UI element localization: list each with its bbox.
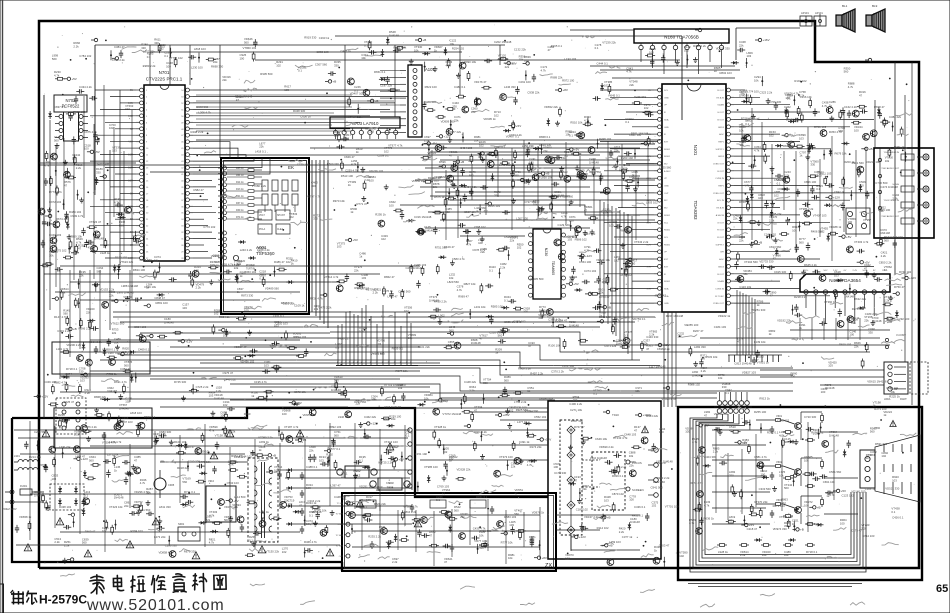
component cluster <box>798 207 814 231</box>
component cluster <box>792 295 808 317</box>
wire <box>193 238 216 240</box>
svg-text:R278 560: R278 560 <box>852 307 865 311</box>
wire <box>537 146 539 218</box>
wire <box>113 316 655 318</box>
wire <box>712 429 770 431</box>
svg-text:10k: 10k <box>804 458 809 462</box>
svg-text:VD153 2.2k: VD153 2.2k <box>100 287 115 291</box>
svg-text:N101: N101 <box>693 145 698 156</box>
svg-text:0.1: 0.1 <box>84 493 88 497</box>
component cluster <box>530 143 555 171</box>
wire <box>611 206 613 330</box>
svg-text:5V: 5V <box>130 89 133 92</box>
svg-text:VT331 560: VT331 560 <box>371 352 385 356</box>
wire <box>379 504 381 552</box>
svg-text:VT623 22k: VT623 22k <box>120 260 134 264</box>
svg-text:+12V: +12V <box>371 422 378 426</box>
wire <box>200 154 600 156</box>
svg-text:1N4148: 1N4148 <box>34 493 44 497</box>
component cluster <box>74 85 97 104</box>
wire <box>330 332 890 345</box>
svg-text:C656 1k: C656 1k <box>300 115 311 119</box>
component cluster <box>384 445 403 469</box>
svg-text:560: 560 <box>182 480 187 484</box>
svg-text:R901 2.2k: R901 2.2k <box>474 430 487 434</box>
svg-text:4.7k: 4.7k <box>584 118 590 122</box>
svg-text:VT785 102: VT785 102 <box>169 56 183 60</box>
svg-text:C213 330: C213 330 <box>188 460 201 464</box>
component cluster <box>119 220 141 243</box>
wire <box>600 295 654 297</box>
wire <box>79 270 81 349</box>
svg-text:VT464 2.2k: VT464 2.2k <box>348 115 363 119</box>
component cluster <box>726 515 754 527</box>
svg-text:47: 47 <box>439 317 443 321</box>
main filter cap C905 <box>154 470 175 498</box>
wire <box>855 150 857 237</box>
svg-text:C848 47: C848 47 <box>154 296 165 300</box>
wire <box>742 293 744 355</box>
component cluster <box>114 197 131 219</box>
svg-text:C921 330: C921 330 <box>479 529 492 533</box>
svg-text:L427 560: L427 560 <box>474 206 486 210</box>
wire <box>734 170 760 172</box>
CRT board outline <box>678 407 922 580</box>
svg-text:9V: 9V <box>873 270 876 272</box>
wire <box>734 221 830 223</box>
svg-text:22k: 22k <box>614 148 619 152</box>
component cluster <box>763 270 793 294</box>
component cluster <box>320 275 347 296</box>
component cluster <box>106 465 133 485</box>
svg-text:C176 330: C176 330 <box>554 471 567 475</box>
wire <box>756 355 758 362</box>
component cluster <box>379 525 397 549</box>
svg-text:3.2V: 3.2V <box>128 154 133 157</box>
wire <box>430 151 620 153</box>
svg-text:R513 100: R513 100 <box>341 174 354 178</box>
wire <box>450 199 655 201</box>
svg-text:22k: 22k <box>79 273 84 277</box>
wire <box>189 45 191 85</box>
component cluster <box>474 80 491 107</box>
wire <box>230 399 555 401</box>
wire <box>778 355 780 362</box>
component cluster <box>589 157 603 185</box>
component cluster <box>386 30 405 53</box>
wire <box>712 459 770 461</box>
svg-text:C187 22k: C187 22k <box>380 84 393 88</box>
wire <box>698 55 700 74</box>
wire <box>627 214 629 354</box>
svg-text:22k: 22k <box>109 293 114 297</box>
svg-text:C426 0.1: C426 0.1 <box>892 516 904 520</box>
svg-text:C333 560: C333 560 <box>759 487 772 491</box>
CRT driver V604 <box>692 437 705 453</box>
wire <box>382 305 384 365</box>
wire <box>193 102 395 104</box>
power outputs <box>330 428 412 524</box>
wire <box>626 163 654 165</box>
svg-text:R679 10k: R679 10k <box>835 152 848 156</box>
svg-text:102: 102 <box>471 110 476 114</box>
svg-text:15: 15 <box>146 180 149 182</box>
component cluster <box>48 105 76 121</box>
component cluster <box>609 145 632 169</box>
wire <box>100 108 136 110</box>
svg-text:103: 103 <box>604 83 609 87</box>
svg-text:R439 2.2k: R439 2.2k <box>434 299 447 303</box>
svg-text:+12V: +12V <box>909 276 916 280</box>
svg-text:49: 49 <box>181 122 184 124</box>
svg-text:36: 36 <box>181 206 184 208</box>
svg-text:560: 560 <box>799 240 804 244</box>
wire <box>196 112 334 114</box>
svg-text:VD658 1k: VD658 1k <box>19 515 32 519</box>
svg-text:C348 560: C348 560 <box>196 105 209 109</box>
svg-text:C617 100: C617 100 <box>786 118 799 122</box>
svg-text:100: 100 <box>166 64 171 68</box>
wire <box>734 133 780 135</box>
wire <box>604 118 654 120</box>
svg-text:VD489 560: VD489 560 <box>265 286 279 290</box>
component cluster <box>544 105 561 126</box>
svg-text:L367 103: L367 103 <box>584 232 596 236</box>
svg-text:C720 330: C720 330 <box>804 415 817 419</box>
svg-text:GND1: GND1 <box>337 524 343 526</box>
wire <box>618 104 654 106</box>
component cluster <box>528 157 550 181</box>
svg-text:R645 2.2k: R645 2.2k <box>804 263 817 267</box>
svg-text:C577 10k: C577 10k <box>97 161 110 165</box>
svg-text:10k: 10k <box>629 454 634 458</box>
wire <box>110 141 136 143</box>
svg-text:VD957 0.1: VD957 0.1 <box>303 413 317 417</box>
svg-text:2.2k: 2.2k <box>713 450 719 454</box>
wire <box>193 212 216 214</box>
component cluster <box>470 140 486 164</box>
wire <box>219 45 221 158</box>
wire <box>60 391 430 393</box>
component cluster <box>803 455 821 481</box>
svg-text:C208 330: C208 330 <box>165 544 178 548</box>
wire <box>193 158 270 174</box>
component cluster <box>34 380 59 406</box>
svg-text:C374 22k: C374 22k <box>554 156 567 160</box>
wire <box>315 160 317 316</box>
svg-text:1N4148: 1N4148 <box>107 389 117 393</box>
svg-text:102: 102 <box>881 454 886 458</box>
svg-text:J: J <box>365 362 366 364</box>
component cluster <box>134 500 154 516</box>
svg-text:L473 22k: L473 22k <box>154 535 166 539</box>
svg-text:C648 103: C648 103 <box>624 432 637 436</box>
wire <box>820 431 858 433</box>
svg-text:4.7k: 4.7k <box>561 214 567 218</box>
component cluster <box>620 330 644 351</box>
svg-text:BPI: BPI <box>720 252 724 254</box>
svg-text:0.1: 0.1 <box>249 538 253 542</box>
svg-text:C489 10k: C489 10k <box>886 386 899 390</box>
svg-text:C139 2.2k: C139 2.2k <box>153 432 166 436</box>
IC N230 TDA4665 <box>529 229 566 299</box>
wire <box>640 55 642 62</box>
wire <box>170 346 420 348</box>
svg-text:46: 46 <box>181 142 184 144</box>
svg-text:102: 102 <box>479 143 484 147</box>
svg-text:R697 560: R697 560 <box>620 229 633 233</box>
svg-text:C706 330: C706 330 <box>769 100 782 104</box>
svg-text:102: 102 <box>887 320 892 324</box>
component cluster <box>56 180 84 203</box>
svg-text:47: 47 <box>474 408 478 412</box>
wire <box>70 281 340 283</box>
svg-text:VD733 330: VD733 330 <box>759 259 773 263</box>
svg-text:C576 2.2k: C576 2.2k <box>84 425 97 429</box>
wire <box>379 429 381 511</box>
bridge rectifier VD901-904 <box>50 484 84 510</box>
component cluster <box>575 205 599 235</box>
svg-text:10k: 10k <box>398 386 403 390</box>
wire <box>614 185 654 187</box>
svg-text:+25V: +25V <box>503 413 510 417</box>
component cluster <box>154 430 173 445</box>
wire <box>470 411 548 413</box>
svg-text:R406 560: R406 560 <box>811 230 824 234</box>
wire <box>771 144 773 237</box>
svg-text:R355 103: R355 103 <box>488 204 501 208</box>
svg-text:VT814 4.7k: VT814 4.7k <box>324 275 339 279</box>
svg-text:C614 103: C614 103 <box>862 534 875 538</box>
svg-text:R114 102: R114 102 <box>597 526 609 530</box>
svg-text:VT894 560: VT894 560 <box>525 409 539 413</box>
svg-text:0.1: 0.1 <box>595 46 599 50</box>
wire <box>69 270 71 357</box>
svg-text:VD827 103: VD827 103 <box>742 370 756 374</box>
svg-text:R147 4.7k: R147 4.7k <box>54 315 67 319</box>
svg-text:VT933 4.7k: VT933 4.7k <box>661 397 676 401</box>
wire <box>30 493 200 495</box>
svg-text:50V: 50V <box>824 270 828 272</box>
component cluster <box>842 160 864 187</box>
svg-text:R235 2.2k: R235 2.2k <box>368 534 381 538</box>
svg-text:R497 2.2k: R497 2.2k <box>530 371 543 375</box>
caption watermark 家电维修资料网 <box>90 572 226 594</box>
svg-text:2.2k: 2.2k <box>598 291 604 295</box>
svg-text:R928 47: R928 47 <box>354 286 365 290</box>
wire <box>626 214 654 216</box>
svg-text:R334 1k: R334 1k <box>219 315 230 319</box>
wire <box>193 218 204 220</box>
svg-text:B OUT: B OUT <box>717 274 724 276</box>
svg-text:R64 1k: R64 1k <box>236 174 244 177</box>
svg-text:0.1: 0.1 <box>335 345 339 349</box>
component cluster <box>847 297 875 325</box>
svg-text:0.1: 0.1 <box>164 54 168 58</box>
wire <box>751 108 753 240</box>
svg-text:0.1: 0.1 <box>745 122 749 126</box>
svg-text:R OUT: R OUT <box>717 237 724 239</box>
svg-text:22k: 22k <box>124 504 129 508</box>
svg-text:47: 47 <box>770 294 774 298</box>
svg-text:4.7k: 4.7k <box>754 148 760 152</box>
wire <box>59 270 61 379</box>
svg-text:2.2k: 2.2k <box>861 526 867 530</box>
svg-text:102: 102 <box>289 215 294 219</box>
wire <box>607 141 609 217</box>
svg-text:C659 4.7k: C659 4.7k <box>220 263 233 267</box>
svg-text:IF: IF <box>664 112 667 114</box>
svg-text:0.1: 0.1 <box>259 277 263 281</box>
svg-text:3.2V: 3.2V <box>128 167 133 170</box>
yoke connector XS601 <box>884 362 928 401</box>
wire <box>323 160 325 324</box>
wire <box>193 134 340 136</box>
wire <box>120 321 635 323</box>
wire <box>365 305 367 365</box>
svg-text:L206 4.7k: L206 4.7k <box>199 110 212 114</box>
svg-text:1N4148: 1N4148 <box>312 510 322 514</box>
svg-text:330: 330 <box>96 170 101 174</box>
svg-text:100: 100 <box>848 220 853 224</box>
svg-text:10k: 10k <box>533 203 538 207</box>
svg-text:R751 560: R751 560 <box>435 246 448 250</box>
svg-text:10k: 10k <box>739 128 744 132</box>
svg-text:L988 1N4148: L988 1N4148 <box>121 284 138 288</box>
svg-text:V910: V910 <box>208 479 215 483</box>
svg-text:4.6V: 4.6V <box>128 141 133 144</box>
svg-text:560: 560 <box>514 512 519 516</box>
svg-text:ZX: ZX <box>545 563 552 569</box>
svg-text:17: 17 <box>146 193 149 195</box>
svg-text:2.2k: 2.2k <box>884 298 890 302</box>
component cluster <box>463 225 486 245</box>
wire <box>825 299 827 324</box>
wire <box>380 90 400 92</box>
wire <box>285 477 410 479</box>
svg-text:22k: 22k <box>505 65 510 69</box>
component cluster <box>592 295 611 310</box>
svg-text:R789 103: R789 103 <box>814 125 827 129</box>
svg-text:22k: 22k <box>460 515 465 519</box>
wire <box>712 491 770 493</box>
wire <box>255 59 680 61</box>
svg-text:560: 560 <box>389 448 394 452</box>
wire <box>911 62 913 405</box>
svg-text:C879 102: C879 102 <box>612 492 625 496</box>
svg-text:RGB1: RGB1 <box>664 281 671 283</box>
svg-text:560: 560 <box>784 440 789 444</box>
svg-text:0.1: 0.1 <box>816 187 820 191</box>
svg-text:10k: 10k <box>479 533 484 537</box>
svg-text:1N4148: 1N4148 <box>539 308 549 312</box>
svg-text:L946 560: L946 560 <box>338 415 350 419</box>
component cluster <box>287 335 309 357</box>
svg-text:+5V: +5V <box>94 150 99 154</box>
svg-text:+B: +B <box>272 453 276 457</box>
wire <box>734 273 850 275</box>
svg-text:RGB1: RGB1 <box>664 156 671 158</box>
wire <box>795 151 797 253</box>
svg-text:103: 103 <box>369 130 374 134</box>
component cluster <box>585 280 618 295</box>
svg-text:2.2k: 2.2k <box>892 196 898 200</box>
wire <box>734 265 874 267</box>
svg-text:R905 560: R905 560 <box>260 72 273 76</box>
svg-text:10k: 10k <box>408 336 413 340</box>
svg-text:103: 103 <box>377 342 382 346</box>
svg-text:560: 560 <box>259 273 264 277</box>
page left edge line <box>2 0 4 613</box>
wire <box>485 155 487 215</box>
svg-text:V602: V602 <box>776 460 783 464</box>
caption model label 海尔H-2579C <box>11 590 88 607</box>
svg-text:L240 2.2k: L240 2.2k <box>240 248 253 252</box>
svg-text:R970 10k: R970 10k <box>333 199 346 203</box>
svg-text:R557 330: R557 330 <box>571 419 584 423</box>
component cluster <box>779 430 799 448</box>
svg-text:2: 2 <box>146 97 148 99</box>
IC N160 TDA7056B <box>634 29 729 55</box>
svg-text:22k: 22k <box>762 553 767 557</box>
svg-text:R882 4.7k: R882 4.7k <box>54 380 67 384</box>
svg-text:C971 22k: C971 22k <box>604 344 617 348</box>
CRT socket and tube neck <box>860 420 920 502</box>
component cluster <box>729 470 743 499</box>
component cluster <box>410 263 427 288</box>
svg-text:102: 102 <box>679 554 684 558</box>
svg-text:L525 47: L525 47 <box>64 400 75 404</box>
svg-text:C104 1k: C104 1k <box>865 487 876 491</box>
wire <box>599 200 601 312</box>
wire <box>663 312 665 407</box>
wire <box>445 170 447 240</box>
regulator N902 7812 <box>337 466 377 478</box>
svg-text:103: 103 <box>288 502 293 506</box>
svg-text:3: 3 <box>146 103 148 105</box>
svg-text:C716 560: C716 560 <box>875 181 888 185</box>
component cluster <box>653 545 665 567</box>
svg-text:1N4148: 1N4148 <box>114 496 124 500</box>
wire <box>451 509 453 557</box>
svg-text:C323 2.2k: C323 2.2k <box>759 91 772 95</box>
svg-text:330: 330 <box>868 330 873 334</box>
svg-text:102: 102 <box>769 133 774 137</box>
wire <box>799 318 801 340</box>
component cluster <box>114 403 129 430</box>
svg-text:R14 1k: R14 1k <box>236 181 244 184</box>
svg-text:IF: IF <box>664 274 667 276</box>
svg-text:R985 22k: R985 22k <box>770 212 783 216</box>
wire <box>380 132 400 134</box>
wire <box>590 65 735 67</box>
svg-text:EXT: EXT <box>664 266 669 268</box>
component cluster <box>480 265 501 293</box>
svg-text:330: 330 <box>569 278 574 282</box>
wire <box>614 133 654 135</box>
wire <box>500 419 548 421</box>
svg-text:VD725 2.2k: VD725 2.2k <box>378 460 393 464</box>
component cluster <box>574 115 592 136</box>
svg-text:10k: 10k <box>743 272 748 276</box>
wire <box>380 83 400 85</box>
svg-text:4.7k: 4.7k <box>559 173 565 177</box>
svg-text:0.1: 0.1 <box>891 510 895 514</box>
svg-text:SDA: SDA <box>664 118 669 121</box>
svg-text:VD140 100: VD140 100 <box>851 489 865 493</box>
wire <box>750 355 752 362</box>
svg-text:C910 103: C910 103 <box>276 321 289 325</box>
